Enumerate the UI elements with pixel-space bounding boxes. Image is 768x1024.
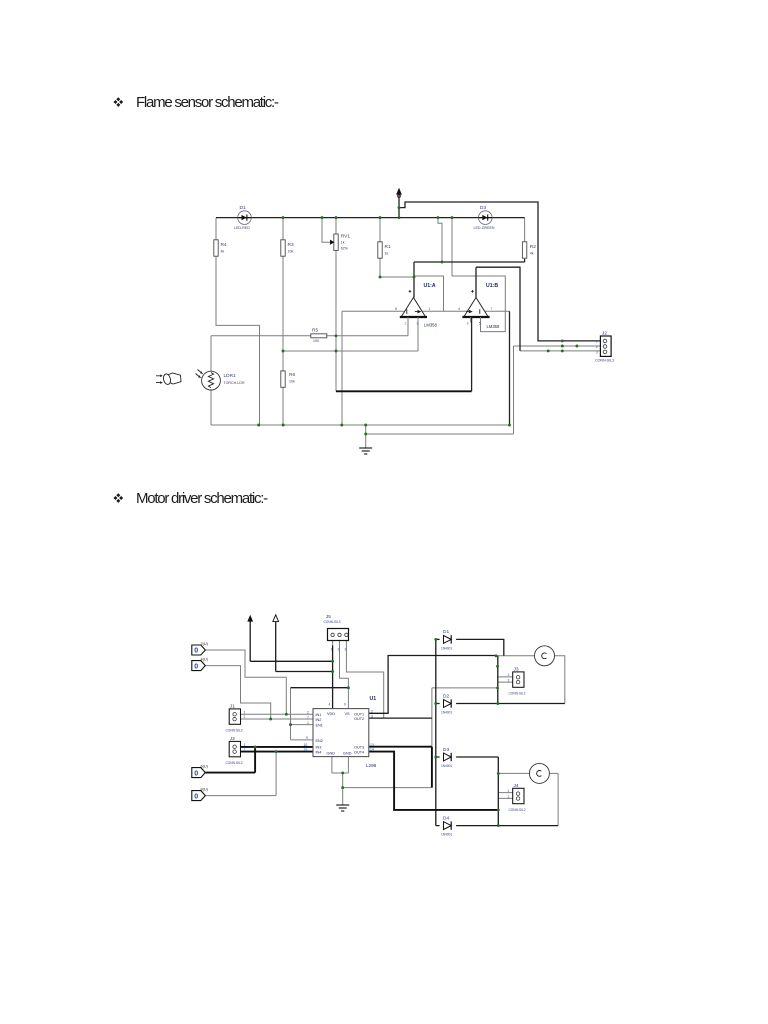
svg-text:2: 2: [244, 748, 246, 752]
svg-text:1: 1: [307, 721, 309, 725]
svg-text:D1: D1: [240, 205, 246, 211]
svg-text:IN2: IN2: [316, 718, 322, 722]
svg-text:13: 13: [370, 743, 374, 747]
svg-text:10: 10: [304, 743, 308, 747]
svg-text:GND: GND: [343, 752, 352, 756]
svg-text:IN3: IN3: [316, 746, 322, 750]
svg-text:RV1: RV1: [341, 234, 351, 240]
svg-text:R6: R6: [289, 372, 295, 378]
svg-text:OUT1: OUT1: [354, 712, 364, 716]
svg-text:2: 2: [508, 795, 510, 799]
svg-text:9: 9: [344, 703, 346, 707]
svg-text:2: 2: [307, 711, 309, 715]
svg-text:6(U): 6(U): [201, 765, 209, 769]
svg-text:TORCH-LDR: TORCH-LDR: [224, 381, 246, 385]
svg-text:J2: J2: [230, 736, 235, 742]
svg-text:100: 100: [313, 339, 319, 343]
svg-text:EN1: EN1: [316, 724, 323, 728]
svg-text:1N4001: 1N4001: [441, 647, 452, 651]
svg-text:D3: D3: [480, 205, 486, 211]
svg-text:1N4001: 1N4001: [441, 764, 452, 768]
svg-text:VDD: VDD: [327, 712, 335, 716]
svg-text:4k: 4k: [530, 252, 534, 256]
svg-text:2: 2: [596, 345, 598, 349]
svg-text:CONN-SIL3: CONN-SIL3: [595, 359, 614, 363]
svg-text:LDR1: LDR1: [224, 373, 237, 379]
svg-text:8: 8: [395, 307, 397, 311]
svg-text:LM358: LM358: [487, 324, 500, 329]
svg-text:R1: R1: [385, 244, 391, 250]
svg-text:1N4001: 1N4001: [441, 711, 452, 715]
svg-text:4: 4: [458, 307, 460, 311]
svg-text:D4: D4: [443, 816, 449, 822]
svg-text:J3: J3: [514, 667, 519, 673]
svg-text:J2: J2: [602, 331, 607, 337]
svg-text:VS: VS: [345, 712, 351, 716]
svg-text:D1: D1: [443, 629, 449, 635]
svg-text:3: 3: [596, 350, 598, 354]
svg-text:4: 4: [329, 703, 331, 707]
svg-text:D2: D2: [443, 694, 449, 700]
svg-text:U1:A: U1:A: [424, 283, 436, 289]
svg-text:R5: R5: [312, 328, 318, 334]
svg-text:R2: R2: [530, 244, 536, 250]
svg-text:J1: J1: [230, 704, 235, 710]
svg-text:CONN-SIL3: CONN-SIL3: [324, 620, 341, 624]
svg-text:7: 7: [491, 307, 493, 311]
svg-text:CONN-SIL2: CONN-SIL2: [226, 761, 243, 765]
svg-text:CONN-SIL2: CONN-SIL2: [509, 692, 526, 696]
svg-text:OUT4: OUT4: [354, 751, 364, 755]
svg-text:6: 6: [467, 322, 469, 326]
svg-text:2: 2: [371, 710, 373, 714]
svg-text:2: 2: [338, 648, 340, 652]
svg-text:2: 2: [508, 678, 510, 682]
svg-text:CONN-SIL2: CONN-SIL2: [226, 729, 243, 733]
svg-text:1: 1: [596, 340, 598, 344]
svg-text:62%: 62%: [341, 247, 349, 251]
svg-text:9: 9: [306, 736, 308, 740]
svg-text:IN1: IN1: [316, 713, 322, 717]
svg-text:8(U): 8(U): [201, 788, 209, 792]
svg-text:D3: D3: [443, 747, 449, 753]
svg-text:10k: 10k: [288, 250, 294, 254]
svg-text:1: 1: [429, 307, 431, 311]
svg-text:4(U): 4(U): [201, 658, 209, 662]
svg-text:OUT3: OUT3: [354, 746, 364, 750]
svg-text:1: 1: [244, 743, 246, 747]
svg-text:1k: 1k: [341, 241, 345, 245]
svg-text:3: 3: [417, 322, 419, 326]
svg-text:CONN-SIL2: CONN-SIL2: [509, 808, 526, 812]
svg-text:LED-RED: LED-RED: [234, 226, 250, 230]
svg-text:GND: GND: [327, 752, 336, 756]
svg-text:J4: J4: [514, 783, 519, 789]
svg-text:2: 2: [405, 322, 407, 326]
svg-text:3: 3: [345, 648, 347, 652]
svg-text:EN2: EN2: [316, 739, 323, 743]
svg-text:15: 15: [304, 748, 308, 752]
svg-text:1: 1: [508, 789, 510, 793]
svg-text:4k: 4k: [221, 250, 225, 254]
svg-text:2: 2: [244, 715, 246, 719]
svg-text:IN4: IN4: [316, 751, 322, 755]
svg-text:7: 7: [307, 715, 309, 719]
svg-text:1: 1: [244, 710, 246, 714]
svg-text:1: 1: [331, 648, 333, 652]
svg-text:R3: R3: [288, 242, 294, 248]
svg-text:L298: L298: [366, 763, 377, 768]
svg-text:1N4001: 1N4001: [441, 833, 452, 837]
svg-text:U1: U1: [370, 696, 377, 702]
svg-text:R4: R4: [221, 242, 227, 248]
svg-text:14: 14: [370, 748, 374, 752]
svg-text:5: 5: [479, 322, 481, 326]
svg-text:LM358: LM358: [424, 323, 437, 328]
svg-text:OUT2: OUT2: [354, 717, 364, 721]
svg-text:10k: 10k: [289, 380, 295, 384]
svg-text:1k: 1k: [385, 252, 389, 256]
svg-text:3: 3: [371, 714, 373, 718]
svg-text:U1:B: U1:B: [486, 283, 498, 289]
svg-text:LED-GREEN: LED-GREEN: [474, 226, 495, 230]
svg-text:2(U): 2(U): [201, 642, 209, 646]
svg-text:1: 1: [508, 673, 510, 677]
